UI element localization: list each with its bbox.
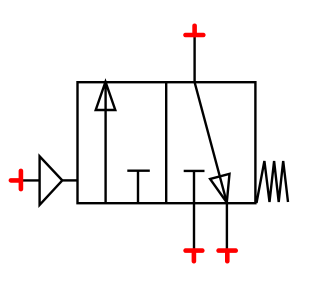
open connection marker: left pilot port	[11, 171, 21, 189]
blocked port T (left position) stem	[137, 171, 139, 204]
flow path arrowhead (left position)	[96, 82, 116, 110]
wire: pilot triangle tip to valve body	[62, 179, 77, 181]
blocked port T (right position) crossbar	[184, 170, 205, 172]
wire: top port line into valve	[193, 35, 195, 82]
flow path diagonal shaft (right position)	[195, 82, 227, 202]
wire: left pilot line from port to triangle	[21, 179, 40, 181]
blocked port T (right position) stem + wire to bottom-left port	[193, 171, 195, 251]
flow path shaft (left position, upward)	[104, 82, 106, 203]
flow path diagonal arrowhead (right position)	[210, 174, 229, 203]
return spring	[257, 161, 289, 203]
wire: bottom-right port line	[226, 203, 228, 251]
blocked port T (left position) crossbar	[127, 169, 150, 171]
open connection marker: top port	[186, 26, 204, 35]
valve body	[78, 82, 256, 203]
position divider	[165, 82, 167, 203]
open connection marker: bottom-right port	[219, 251, 236, 262]
pilot actuator triangle	[40, 156, 63, 205]
open connection marker: bottom-left port	[186, 251, 203, 262]
